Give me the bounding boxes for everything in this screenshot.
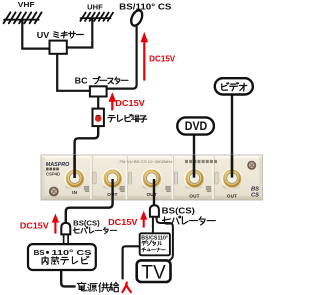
wire terminal to device IN xyxy=(75,126,99,178)
svg-text:CS: CS xyxy=(251,193,259,199)
svg-text:UHF: UHF xyxy=(87,2,103,11)
wire UHF mast to mixer xyxy=(67,18,92,47)
svg-text:BS/CS110°: BS/CS110° xyxy=(141,236,168,242)
cable into OUT3 over photo xyxy=(193,155,196,178)
svg-text:BS(CS): BS(CS) xyxy=(162,207,196,216)
DC15V arrow separator 1 xyxy=(54,221,56,234)
svg-text:DC15V: DC15V xyxy=(149,55,176,64)
svg-text:OUT: OUT xyxy=(146,192,157,197)
svg-text:CSP4D: CSP4D xyxy=(46,171,60,176)
wire booster to terminal xyxy=(97,97,99,109)
distribution amplifier photo (MASPRO CSP4D) xyxy=(41,155,263,200)
label tuner line3 xyxy=(142,248,146,252)
TV wall terminal box xyxy=(93,109,104,127)
wire dish to booster xyxy=(107,26,137,89)
cable from OUT1 xyxy=(66,179,113,223)
label built-in TV xyxy=(42,257,48,265)
cable into OUT4 over photo xyxy=(231,155,234,178)
F-connectors row xyxy=(64,168,85,189)
separator 2 right leg to TV xyxy=(157,217,173,261)
device screw top-right xyxy=(247,161,256,170)
device screw bottom-left xyxy=(49,187,59,197)
wire BS TV power xyxy=(61,270,75,286)
wire DVD to OUT3 xyxy=(193,135,195,178)
wire tuner power xyxy=(123,246,140,279)
device tiny model text xyxy=(46,168,59,171)
svg-text:OUT: OUT xyxy=(189,194,200,199)
cable into IN over photo xyxy=(73,155,76,178)
BS 110CS TV box xyxy=(28,244,96,270)
separator 2 xyxy=(150,205,159,217)
svg-text:110° CS: 110° CS xyxy=(52,248,92,257)
svg-text:MASPRO: MASPRO xyxy=(46,162,70,168)
svg-text:BC: BC xyxy=(75,77,88,86)
wire mixer to booster xyxy=(57,54,90,91)
antenna UHF xyxy=(80,13,113,21)
terminal red dot xyxy=(95,115,102,122)
cable from OUT2 xyxy=(153,179,155,205)
wire VHF mast to mixer xyxy=(22,20,49,49)
svg-text:FM·VU·BS·CS 10~2602MHz: FM·VU·BS·CS 10~2602MHz xyxy=(120,160,173,164)
DC15V arrow at dish xyxy=(143,41,145,81)
digital tuner box xyxy=(140,233,170,255)
svg-text:DC15V: DC15V xyxy=(115,99,145,108)
svg-text:IN: IN xyxy=(72,190,78,195)
separator 1 xyxy=(61,223,70,235)
svg-text:UV: UV xyxy=(37,31,50,40)
label video xyxy=(222,83,229,90)
wire video to OUT4 xyxy=(231,94,233,177)
svg-text:VHF: VHF xyxy=(18,0,35,9)
separator 2 left leg to tuner xyxy=(152,217,154,234)
svg-text:BS/110° CS: BS/110° CS xyxy=(119,2,172,12)
svg-text:DC15V: DC15V xyxy=(20,222,50,231)
TV box xyxy=(137,260,171,282)
svg-text:OUT: OUT xyxy=(227,194,238,199)
BC booster box xyxy=(90,86,107,96)
antenna VHF xyxy=(4,12,42,23)
svg-text:DVD: DVD xyxy=(185,119,208,133)
DC15V arrow at booster xyxy=(111,100,113,110)
separator 1 legs xyxy=(64,234,69,244)
svg-text:BS: BS xyxy=(251,187,259,193)
label tuner line2 xyxy=(142,241,147,246)
DVD box xyxy=(177,117,214,134)
BS dish antenna xyxy=(129,9,144,28)
label power supply xyxy=(77,282,86,290)
DC15V arrow separator 2 xyxy=(143,218,145,228)
UV mixer box xyxy=(50,41,67,54)
svg-text:BS(CS): BS(CS) xyxy=(73,219,100,228)
svg-text:BS: BS xyxy=(34,248,45,257)
video box xyxy=(215,78,253,94)
label terminal xyxy=(108,116,115,122)
svg-text:TV: TV xyxy=(141,262,165,284)
svg-text:DC15V: DC15V xyxy=(108,218,138,227)
